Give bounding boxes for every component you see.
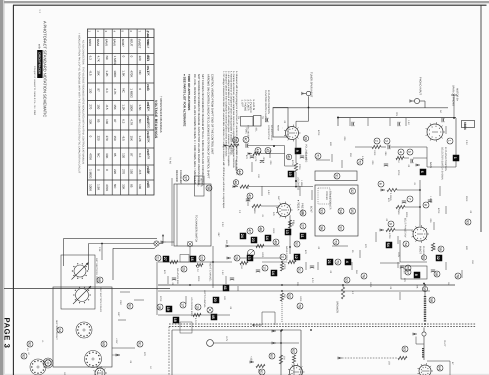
svg-text:45: 45 [286, 155, 290, 159]
svg-text:6CM7: 6CM7 [310, 206, 313, 213]
svg-text:91: 91 [137, 342, 141, 346]
svg-text:77: 77 [405, 266, 409, 270]
svg-text:49: 49 [273, 240, 277, 244]
svg-text:PILOT: PILOT [443, 340, 446, 347]
svg-text:47K: 47K [304, 250, 307, 255]
svg-text:79: 79 [297, 304, 301, 308]
svg-text:PIN 2: PIN 2 [146, 66, 149, 73]
svg-text:33: 33 [319, 209, 323, 213]
svg-text:6V6: 6V6 [433, 246, 436, 251]
svg-text:1.5K: 1.5K [407, 120, 410, 125]
svg-text:PIN 4: PIN 4 [146, 102, 149, 109]
svg-text:6. Measured with changer plug: 6. Measured with changer plugged in and … [235, 71, 238, 176]
svg-text:OSC SECTION 2 REAR: OSC SECTION 2 REAR [99, 287, 102, 312]
svg-text:9: 9 [388, 223, 392, 225]
svg-text:6BA6: 6BA6 [96, 39, 100, 47]
svg-text:SET CHASSIS ON SCHEMATIC DIAGR: SET CHASSIS ON SCHEMATIC DIAGRAM WITH AL… [201, 74, 204, 186]
svg-text:64: 64 [437, 366, 441, 370]
svg-text:ANT: ANT [117, 312, 120, 317]
svg-text:270K: 270K [283, 264, 286, 270]
svg-text:680K: 680K [253, 208, 256, 214]
svg-text:37: 37 [183, 176, 187, 180]
svg-text:SPEAKER: SPEAKER [336, 301, 339, 313]
svg-text:76: 76 [361, 274, 365, 278]
svg-text:6.3: 6.3 [121, 119, 125, 124]
svg-text:68K: 68K [291, 222, 294, 227]
svg-text:3: 3 [384, 140, 388, 142]
svg-text:PAGE 3: PAGE 3 [3, 318, 12, 349]
svg-text:4.7K: 4.7K [130, 119, 134, 125]
svg-text:··: ·· [281, 127, 284, 129]
svg-text:6: 6 [378, 183, 382, 185]
svg-text:51: 51 [297, 268, 301, 272]
svg-text:4.7K: 4.7K [194, 318, 197, 323]
svg-text:100K: 100K [130, 104, 134, 111]
svg-text:4: 4 [398, 151, 402, 153]
svg-text:2: 2 [374, 140, 378, 142]
svg-text:12: 12 [294, 255, 298, 259]
svg-text:27: 27 [300, 224, 304, 228]
svg-text:NO MATCHING: NO MATCHING [270, 125, 273, 141]
svg-text:21: 21 [327, 260, 331, 264]
svg-text:4.7K: 4.7K [311, 278, 314, 283]
svg-text:19: 19 [166, 307, 170, 311]
svg-text:23: 23 [251, 238, 255, 242]
svg-text:6EU7: 6EU7 [129, 39, 133, 47]
svg-text:PIN 3: PIN 3 [146, 84, 149, 91]
svg-text:PHONO INPUT: PHONO INPUT [419, 77, 422, 95]
svg-text:4. Nominal tolerance of compo: 4. Nominal tolerance of component values… [230, 71, 233, 156]
svg-text:50: 50 [294, 242, 298, 246]
svg-text:97: 97 [97, 88, 101, 92]
svg-text:PIN 9: PIN 9 [146, 181, 149, 188]
svg-text:62: 62 [291, 349, 295, 353]
svg-text:5: 5 [407, 151, 411, 153]
svg-text:270: 270 [121, 169, 125, 174]
svg-text:5. AUX IN: 5. AUX IN [252, 100, 255, 111]
svg-text:14: 14 [271, 271, 275, 275]
svg-text:8: 8 [414, 274, 418, 276]
svg-text:-8.5: -8.5 [105, 104, 109, 110]
svg-text:CIRCUITRACE®: CIRCUITRACE® [38, 52, 42, 75]
svg-text:56: 56 [438, 247, 442, 251]
svg-text:97: 97 [130, 153, 134, 157]
svg-text:2.2K: 2.2K [221, 222, 224, 227]
svg-text:33K: 33K [105, 153, 109, 158]
svg-text:1 MEG: 1 MEG [130, 88, 134, 98]
svg-text:25: 25 [181, 267, 185, 271]
svg-text:6EU7 PHASE INV: 6EU7 PHASE INV [404, 218, 407, 238]
svg-text:10: 10 [262, 266, 266, 270]
svg-text:15K: 15K [240, 265, 243, 270]
svg-text:47K: 47K [245, 155, 248, 160]
svg-text:1200: 1200 [369, 282, 372, 288]
svg-text:1 MEG: 1 MEG [300, 180, 303, 187]
svg-text:5 2: 5 2 [38, 10, 41, 14]
svg-text:.047: .047 [235, 150, 238, 155]
svg-text:220K: 220K [197, 276, 200, 282]
svg-text:130: 130 [121, 153, 125, 158]
svg-text:2. PHONO: 2. PHONO [243, 100, 246, 112]
svg-text:PIN 7: PIN 7 [146, 149, 149, 156]
svg-text:85: 85 [113, 153, 117, 157]
svg-text:15K: 15K [388, 361, 391, 366]
svg-text:150K: 150K [272, 228, 275, 234]
svg-text:4. TV-SPKR: 4. TV-SPKR [249, 100, 252, 113]
svg-text:35: 35 [350, 209, 354, 213]
svg-text:PIN 8: PIN 8 [146, 166, 149, 173]
svg-text:1. DC voltage measurements ta: 1. DC voltage measurements taken with va… [222, 71, 225, 209]
svg-text:CHANGER: CHANGER [179, 170, 182, 183]
svg-text:4.7K: 4.7K [254, 156, 257, 161]
svg-text:14: 14 [265, 236, 269, 240]
svg-text:3.3K: 3.3K [98, 247, 101, 252]
svg-text:6AV6: 6AV6 [429, 162, 432, 169]
svg-text:470K: 470K [437, 208, 440, 214]
svg-text:220K: 220K [231, 148, 234, 154]
svg-text:TUBE: TUBE [146, 31, 149, 38]
svg-text:10K: 10K [257, 174, 260, 179]
svg-text:470K: 470K [388, 233, 391, 239]
svg-text:31: 31 [334, 174, 338, 178]
svg-text:.005: .005 [269, 160, 272, 165]
svg-text:RECORD: RECORD [175, 170, 178, 182]
svg-text:TUNER SPKR INPUT: TUNER SPKR INPUT [310, 72, 313, 98]
svg-text:270K: 270K [159, 296, 162, 302]
svg-text:97: 97 [113, 119, 117, 123]
svg-text:TUBE OR APPLICATIONS: TUBE OR APPLICATIONS [187, 74, 191, 110]
svg-text:PIN 5: PIN 5 [146, 116, 149, 123]
svg-text:.005: .005 [343, 136, 346, 141]
svg-text:54: 54 [386, 243, 390, 247]
svg-text:39: 39 [233, 138, 237, 142]
svg-text:1.5K: 1.5K [221, 270, 224, 275]
svg-text:6AV6: 6AV6 [104, 39, 108, 46]
svg-text:93: 93 [465, 220, 469, 224]
svg-text:71: 71 [315, 154, 319, 158]
svg-text:† RESISTANCE READINGS: † RESISTANCE READINGS [159, 96, 163, 133]
svg-text:74: 74 [403, 242, 407, 246]
svg-text:4.7K: 4.7K [97, 56, 101, 62]
svg-text:78: 78 [455, 274, 459, 278]
svg-text:● SEE PARTS LIST FOR ALTERNATE: ● SEE PARTS LIST FOR ALTERNATE [183, 74, 187, 126]
svg-text:6V6GT: 6V6GT [138, 39, 142, 49]
svg-text:-8.5: -8.5 [138, 169, 142, 175]
svg-text:90: 90 [127, 304, 131, 308]
svg-text:6.3: 6.3 [105, 88, 109, 93]
svg-text:1 MEG: 1 MEG [113, 56, 117, 66]
svg-text:100K: 100K [373, 150, 376, 156]
svg-text:2.2K: 2.2K [465, 140, 468, 145]
svg-text:LOUDNESS 500K: LOUDNESS 500K [190, 297, 193, 317]
svg-text:270: 270 [105, 136, 109, 141]
svg-text:6AV6: 6AV6 [113, 39, 117, 46]
svg-text:IN PHONO POSITION: IN PHONO POSITION [444, 147, 447, 171]
svg-text:15K: 15K [113, 104, 117, 109]
svg-text:1: 1 [453, 157, 457, 159]
svg-text:1K: 1K [397, 160, 400, 163]
svg-text:38: 38 [206, 186, 210, 190]
svg-text:with: with [38, 44, 42, 49]
svg-text:.046: .046 [384, 151, 387, 156]
svg-text:63: 63 [402, 347, 406, 351]
svg-text:† MEASURED FROM PIN 1 OF V5. R: † MEASURED FROM PIN 1 OF V5. READINGS VA… [78, 33, 81, 174]
svg-text:53: 53 [344, 278, 348, 282]
svg-text:BASS 3 MEG: BASS 3 MEG [285, 246, 288, 261]
svg-text:3. TUNER: 3. TUNER [246, 100, 249, 111]
svg-text:1. OFF: 1. OFF [241, 100, 244, 108]
svg-text:1.5K: 1.5K [121, 70, 125, 76]
svg-text:4: 4 [345, 261, 349, 263]
svg-text:55: 55 [421, 256, 425, 260]
svg-text:PH: PH [237, 116, 240, 120]
svg-text:1200: 1200 [261, 252, 264, 258]
svg-text:24: 24 [240, 234, 244, 238]
svg-text:NOT SHOWN ON SCHEMATIC DIAGRAM: NOT SHOWN ON SCHEMATIC DIAGRAM. CAPACITO… [197, 74, 200, 185]
svg-text:TRANSFORMER: TRANSFORMER [329, 191, 332, 210]
svg-text:58: 58 [434, 272, 438, 276]
svg-text:130: 130 [105, 119, 109, 124]
svg-text:270K: 270K [298, 164, 301, 170]
svg-text:36: 36 [319, 226, 323, 230]
svg-text:150: 150 [130, 169, 134, 174]
svg-text:270K: 270K [397, 170, 400, 176]
svg-text:CONTROL VIEWED FROM SHAFT END: CONTROL VIEWED FROM SHAFT END OF THE CON… [211, 74, 214, 155]
svg-text:27: 27 [163, 257, 167, 261]
svg-text:PIN: PIN [395, 112, 398, 116]
svg-text:6V6GT: 6V6GT [419, 246, 422, 254]
svg-text:.005: .005 [429, 218, 432, 223]
svg-text:72: 72 [357, 160, 361, 164]
svg-text:-8.5: -8.5 [88, 70, 92, 76]
svg-text:34: 34 [338, 209, 342, 213]
svg-text:56K: 56K [283, 294, 286, 299]
svg-text:270: 270 [88, 104, 92, 109]
svg-text:150: 150 [97, 104, 101, 109]
svg-text:SEL: SEL [254, 128, 257, 133]
svg-text:92: 92 [21, 354, 25, 358]
svg-text:17: 17 [180, 303, 184, 307]
svg-text:SECTION 2 FRONT: SECTION 2 FRONT [55, 320, 58, 340]
svg-text:52: 52 [287, 294, 291, 298]
svg-text:85: 85 [97, 119, 101, 123]
svg-text:470K: 470K [105, 184, 109, 191]
svg-text:43: 43 [247, 194, 251, 198]
svg-text:18: 18 [173, 318, 177, 322]
svg-text:ABT: ABT [277, 196, 280, 201]
svg-text:TO RE: TO RE [169, 157, 172, 164]
svg-text:42: 42 [265, 149, 269, 153]
svg-text:TO CHANGER SWITCH: TO CHANGER SWITCH [195, 215, 198, 242]
svg-text:33K: 33K [296, 282, 299, 287]
svg-text:6CM7: 6CM7 [121, 39, 125, 47]
svg-text:4.7K: 4.7K [196, 267, 199, 272]
svg-text:1.2K: 1.2K [121, 104, 125, 110]
svg-text:33K: 33K [121, 184, 125, 189]
svg-text:68K: 68K [329, 142, 332, 147]
svg-text:41: 41 [223, 286, 227, 290]
svg-text:6.3: 6.3 [88, 56, 92, 61]
svg-text:1.5K: 1.5K [97, 184, 101, 190]
svg-text:LOUDNESS: LOUDNESS [297, 177, 300, 191]
svg-text:250K: 250K [465, 196, 468, 202]
svg-text:47K: 47K [163, 270, 166, 275]
svg-text:15: 15 [195, 305, 199, 309]
svg-text:4.7K: 4.7K [113, 88, 117, 94]
svg-text:75: 75 [335, 260, 339, 264]
svg-text:250K: 250K [397, 209, 400, 215]
svg-text:6.8K: 6.8K [267, 190, 270, 195]
svg-text:6BE6: 6BE6 [88, 39, 92, 47]
svg-text:47: 47 [247, 229, 251, 233]
svg-text:+15V: +15V [115, 338, 118, 344]
svg-text:15K: 15K [471, 260, 474, 265]
svg-text:45: 45 [211, 315, 215, 319]
svg-text:REAR: REAR [277, 125, 280, 131]
svg-text:DC, COIL, RESISTANCE VALUES SH: DC, COIL, RESISTANCE VALUES SHOWN IN OHM… [193, 74, 196, 185]
svg-text:4.5: 4.5 [272, 212, 275, 216]
svg-text:15K: 15K [130, 136, 134, 141]
svg-text:OSC MIXER: OSC MIXER [247, 125, 250, 138]
svg-text:470K: 470K [317, 130, 320, 136]
svg-text:150: 150 [113, 136, 117, 141]
svg-text:32: 32 [436, 256, 440, 260]
svg-text:1.2K: 1.2K [105, 70, 109, 76]
svg-text:100K: 100K [88, 184, 92, 191]
svg-text:11: 11 [300, 234, 304, 238]
svg-text:LEFT CHANNEL: LEFT CHANNEL [203, 290, 206, 309]
svg-text:A PHOTOFACT STANDARD NOTATION: A PHOTOFACT STANDARD NOTATION SCHEMATIC [43, 21, 48, 117]
svg-text:130: 130 [88, 88, 92, 93]
svg-text:32: 32 [350, 189, 354, 193]
svg-text:18: 18 [157, 305, 161, 309]
svg-text:1 MEG: 1 MEG [88, 169, 92, 179]
svg-text:5. Controls at minimum, prope: 5. Controls at minimum, proper output lo… [232, 71, 235, 169]
svg-text:1K: 1K [149, 366, 152, 369]
svg-text:117V: 117V [225, 336, 228, 342]
svg-text:13: 13 [285, 230, 289, 234]
svg-text:68: 68 [97, 278, 101, 282]
svg-text:RIGHT CHANNEL: RIGHT CHANNEL [209, 262, 212, 282]
svg-text:6.3: 6.3 [138, 153, 142, 158]
svg-text:PIN 1: PIN 1 [146, 55, 149, 62]
svg-text:73: 73 [333, 240, 337, 244]
svg-text:220: 220 [113, 169, 117, 174]
svg-text:AC: AC [439, 110, 442, 114]
svg-text:29: 29 [300, 211, 304, 215]
svg-text:470K: 470K [130, 70, 134, 77]
svg-text:12K: 12K [223, 296, 226, 301]
svg-text:28: 28 [303, 137, 307, 141]
svg-text:MK: MK [416, 285, 419, 289]
svg-text:6BE6: 6BE6 [463, 122, 467, 130]
svg-text:59: 59 [422, 287, 426, 291]
svg-text:OSC: OSC [119, 300, 122, 305]
svg-text:PIN: PIN [146, 40, 149, 44]
svg-text:30: 30 [338, 226, 342, 230]
svg-text:69: 69 [101, 342, 105, 346]
svg-text:92: 92 [27, 342, 31, 346]
svg-text:60: 60 [269, 354, 273, 358]
svg-text:8: 8 [423, 204, 427, 206]
svg-text:61: 61 [259, 370, 263, 374]
svg-text:16: 16 [190, 257, 194, 261]
svg-text:ARROWS ON CONTROLS INDICATE CL: ARROWS ON CONTROLS INDICATE CLOCKWISE RO… [207, 74, 210, 179]
svg-text:470K: 470K [88, 153, 92, 160]
svg-text:100K: 100K [113, 70, 117, 77]
svg-text:BALANCE 50K: BALANCE 50K [176, 268, 179, 284]
svg-text:PIN 6: PIN 6 [146, 131, 149, 138]
svg-text:FUNCTION SWITCH SHOWN: FUNCTION SWITCH SHOWN [264, 90, 267, 123]
svg-text:48: 48 [258, 227, 262, 231]
svg-text:1.5K: 1.5K [138, 104, 142, 110]
svg-text:7: 7 [407, 198, 411, 200]
svg-text:2. Measured values are from s: 2. Measured values are from socket pin t… [224, 71, 227, 157]
svg-text:40: 40 [243, 138, 247, 142]
svg-text:58: 58 [429, 298, 433, 302]
svg-text:220K: 220K [405, 212, 408, 218]
svg-text:15K: 15K [97, 70, 101, 75]
svg-text:25 BASS: 25 BASS [422, 246, 425, 256]
svg-text:220: 220 [97, 136, 101, 141]
svg-text:20: 20 [213, 298, 217, 302]
svg-text:470K: 470K [291, 160, 294, 166]
svg-text:120K: 120K [299, 296, 302, 302]
svg-text:©Reprint of Howard W. Sams & C: ©Reprint of Howard W. Sams & Co., Inc. 1… [33, 66, 36, 116]
svg-text:118V: 118V [397, 252, 400, 258]
svg-text:24: 24 [57, 328, 61, 332]
svg-text:.047: .047 [217, 232, 220, 237]
svg-text:CONVERTER: CONVERTER [267, 125, 270, 140]
svg-text:130: 130 [138, 184, 142, 189]
svg-text:IN PHONO POSITION: IN PHONO POSITION [267, 90, 270, 114]
svg-text:56K: 56K [355, 270, 358, 275]
svg-text:10: 10 [288, 172, 292, 176]
svg-text:1.2K: 1.2K [138, 136, 142, 142]
svg-text:.005: .005 [371, 160, 374, 165]
svg-text:NC NO CONNECTION THE VOLTA: NC NO CONNECTION THE VOLTAGE READINGS WE… [82, 40, 85, 164]
svg-text:85: 85 [130, 184, 134, 188]
svg-text:1: 1 [447, 140, 451, 142]
svg-text:220: 220 [138, 56, 142, 61]
svg-text:21: 21 [155, 256, 159, 260]
svg-text:SELECTOR SWITCH SHOWN: SELECTOR SWITCH SHOWN [441, 147, 444, 180]
svg-text:VOLTAGE READINGS: VOLTAGE READINGS [154, 100, 158, 139]
svg-text:TU: TU [261, 116, 264, 119]
svg-text:46: 46 [233, 181, 237, 185]
svg-text:44: 44 [237, 170, 241, 174]
svg-text:47K: 47K [387, 198, 390, 203]
svg-text:3. Line voltage maintained at: 3. Line voltage maintained at 117 volts … [227, 71, 230, 167]
svg-text:22: 22 [199, 256, 203, 260]
svg-text:6: 6 [420, 171, 424, 173]
svg-text:-8.5: -8.5 [121, 136, 125, 142]
svg-text:MOTOR: MOTOR [200, 178, 203, 187]
svg-text:♦ 7025 A: ♦ 7025 A [297, 200, 300, 211]
svg-text:PHONO: PHONO [197, 178, 200, 187]
svg-text:26: 26 [234, 256, 238, 260]
svg-text:POWER: POWER [325, 191, 328, 200]
svg-text:33K: 33K [88, 119, 92, 124]
